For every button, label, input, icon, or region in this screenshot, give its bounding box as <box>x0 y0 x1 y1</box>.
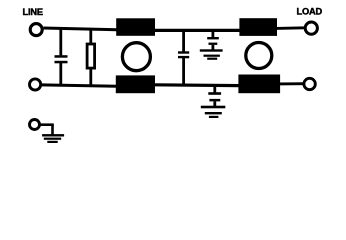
svg-text:LINE: LINE <box>23 7 43 17</box>
svg-text:LOAD: LOAD <box>297 6 323 16</box>
